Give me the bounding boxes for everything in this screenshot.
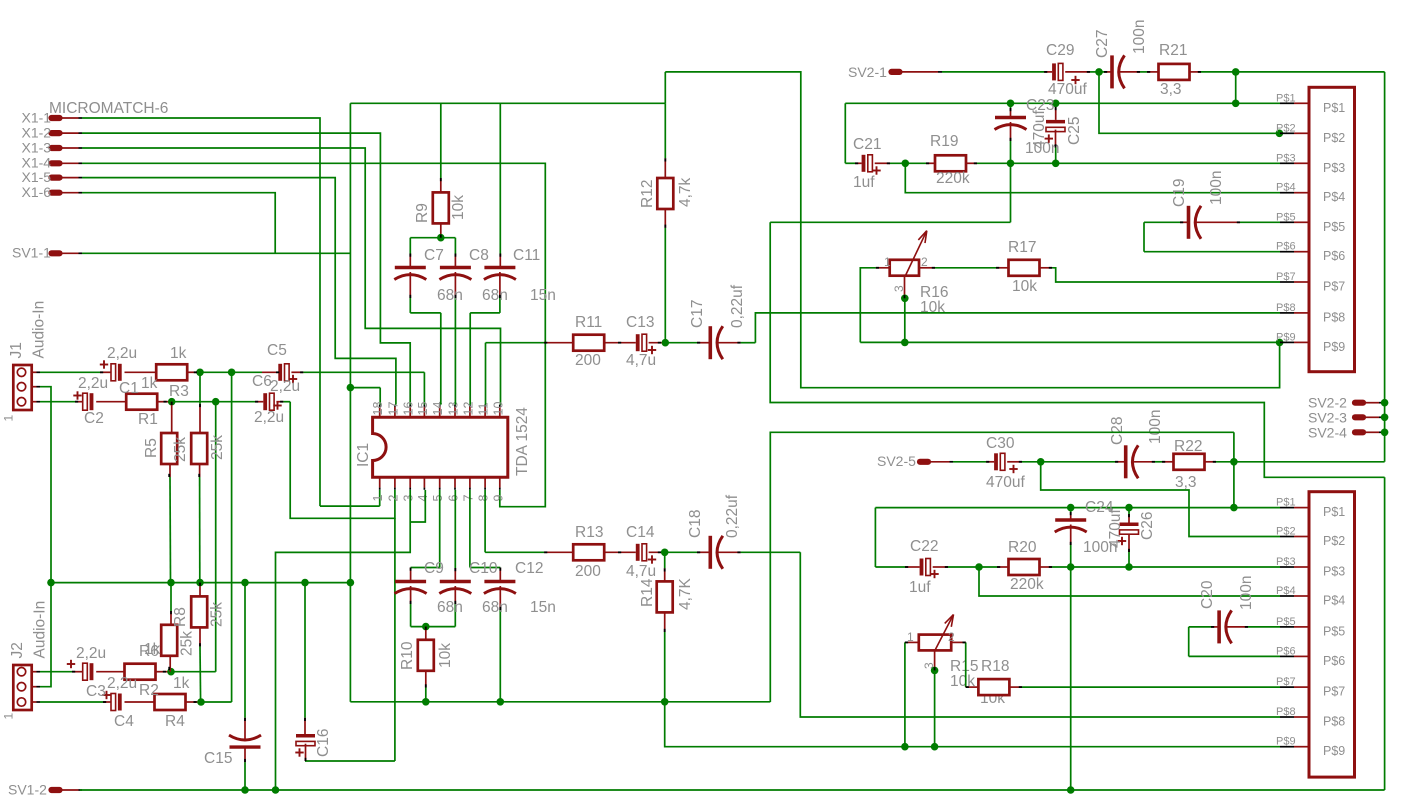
- svg-text:C4: C4: [114, 713, 134, 730]
- svg-text:P$9: P$9: [1323, 744, 1345, 758]
- svg-text:X1-6: X1-6: [22, 184, 52, 200]
- svg-text:P$6: P$6: [1276, 241, 1296, 253]
- svg-text:C2: C2: [84, 410, 104, 427]
- svg-text:470uf: 470uf: [1031, 110, 1048, 149]
- svg-text:C16: C16: [315, 729, 332, 757]
- svg-text:4,7k: 4,7k: [677, 177, 694, 207]
- svg-text:C21: C21: [853, 136, 881, 153]
- svg-text:17: 17: [386, 402, 400, 416]
- svg-text:1: 1: [884, 255, 891, 269]
- svg-text:11: 11: [477, 402, 491, 415]
- svg-text:200: 200: [575, 352, 601, 369]
- svg-text:7: 7: [461, 495, 475, 502]
- svg-text:4: 4: [416, 495, 430, 502]
- svg-text:R18: R18: [981, 658, 1009, 675]
- svg-text:P$7: P$7: [1276, 271, 1296, 283]
- svg-text:R20: R20: [1008, 539, 1037, 556]
- svg-text:470uf: 470uf: [1107, 509, 1124, 548]
- svg-text:MICROMATCH-6: MICROMATCH-6: [49, 100, 168, 117]
- svg-text:SV1-1: SV1-1: [12, 245, 51, 261]
- svg-text:1k: 1k: [141, 375, 158, 392]
- svg-text:R12: R12: [639, 180, 656, 208]
- svg-text:X1-5: X1-5: [22, 169, 52, 185]
- svg-text:P$2: P$2: [1323, 534, 1345, 548]
- svg-text:R2: R2: [139, 682, 159, 699]
- svg-text:C5: C5: [267, 342, 287, 359]
- svg-text:4,7u: 4,7u: [626, 563, 656, 580]
- svg-text:P$5: P$5: [1276, 211, 1296, 223]
- svg-text:1: 1: [2, 415, 16, 422]
- svg-text:R13: R13: [575, 524, 603, 541]
- svg-text:P$2: P$2: [1276, 526, 1296, 538]
- svg-text:15: 15: [416, 402, 430, 416]
- svg-text:16: 16: [402, 402, 416, 416]
- svg-text:X1-3: X1-3: [22, 139, 52, 155]
- svg-text:C26: C26: [1139, 512, 1156, 540]
- svg-text:P$6: P$6: [1323, 249, 1345, 263]
- svg-text:P$5: P$5: [1276, 616, 1296, 628]
- svg-text:C14: C14: [626, 524, 655, 541]
- svg-text:C6: C6: [252, 373, 272, 390]
- svg-text:R3: R3: [169, 383, 189, 400]
- svg-text:C15: C15: [204, 750, 232, 767]
- svg-text:3,3: 3,3: [1175, 474, 1197, 491]
- svg-text:C3: C3: [86, 683, 106, 700]
- svg-text:3: 3: [402, 495, 416, 502]
- svg-text:2: 2: [921, 255, 928, 269]
- svg-text:SV2-5: SV2-5: [877, 453, 916, 469]
- svg-text:100n: 100n: [1147, 410, 1164, 444]
- svg-text:P$3: P$3: [1276, 152, 1296, 164]
- svg-text:P$8: P$8: [1323, 310, 1345, 324]
- svg-text:C1: C1: [119, 380, 139, 397]
- svg-text:1k: 1k: [170, 345, 187, 362]
- svg-text:R19: R19: [930, 133, 958, 150]
- svg-text:C20: C20: [1199, 580, 1216, 609]
- svg-text:P$6: P$6: [1276, 645, 1296, 657]
- svg-text:470uf: 470uf: [986, 474, 1025, 491]
- svg-text:C11: C11: [513, 247, 540, 264]
- svg-text:2,2u: 2,2u: [107, 345, 137, 362]
- svg-text:2: 2: [386, 495, 400, 502]
- svg-text:1uf: 1uf: [909, 579, 931, 596]
- svg-text:C28: C28: [1109, 417, 1126, 445]
- svg-text:1: 1: [2, 713, 16, 720]
- svg-text:R5: R5: [143, 438, 160, 458]
- svg-text:2,2u: 2,2u: [78, 375, 108, 392]
- svg-text:25k: 25k: [209, 435, 226, 460]
- svg-text:SV1-2: SV1-2: [8, 781, 47, 797]
- svg-text:8: 8: [477, 495, 491, 502]
- svg-text:15n: 15n: [530, 287, 556, 304]
- svg-text:R8: R8: [172, 607, 189, 627]
- svg-text:R11: R11: [575, 314, 602, 331]
- svg-text:68n: 68n: [482, 599, 508, 616]
- svg-text:100n: 100n: [1238, 576, 1255, 610]
- svg-text:R17: R17: [1008, 239, 1036, 256]
- svg-text:1uf: 1uf: [853, 174, 875, 191]
- svg-text:10k: 10k: [450, 195, 467, 220]
- svg-text:25k: 25k: [179, 631, 196, 656]
- svg-text:P$9: P$9: [1276, 736, 1296, 748]
- svg-text:18: 18: [371, 402, 385, 416]
- svg-text:P$2: P$2: [1276, 122, 1296, 134]
- svg-text:P$8: P$8: [1323, 715, 1345, 729]
- svg-text:SV2-3: SV2-3: [1308, 409, 1347, 425]
- svg-text:15n: 15n: [530, 599, 556, 616]
- svg-text:C13: C13: [626, 314, 654, 331]
- svg-text:2,2u: 2,2u: [76, 645, 106, 662]
- svg-text:Audio-In: Audio-In: [32, 601, 49, 659]
- svg-text:P$6: P$6: [1323, 654, 1345, 668]
- svg-text:12: 12: [461, 402, 475, 416]
- svg-text:J2: J2: [9, 642, 26, 658]
- svg-text:68n: 68n: [437, 287, 463, 304]
- svg-text:10k: 10k: [920, 299, 945, 316]
- svg-text:P$2: P$2: [1323, 131, 1345, 145]
- svg-text:C8: C8: [469, 247, 489, 264]
- svg-text:220k: 220k: [936, 170, 970, 187]
- svg-text:1k: 1k: [173, 675, 190, 692]
- svg-text:C7: C7: [424, 247, 444, 264]
- svg-text:P$4: P$4: [1323, 190, 1345, 204]
- svg-text:C29: C29: [1046, 42, 1074, 59]
- svg-text:P$3: P$3: [1323, 161, 1345, 175]
- svg-text:3,3: 3,3: [1160, 81, 1182, 98]
- svg-text:P$7: P$7: [1323, 280, 1345, 294]
- svg-text:P$1: P$1: [1276, 92, 1296, 104]
- svg-text:470uf: 470uf: [1048, 81, 1087, 98]
- svg-text:4,7K: 4,7K: [677, 577, 694, 610]
- svg-text:200: 200: [575, 563, 601, 580]
- svg-text:9: 9: [491, 495, 505, 502]
- svg-text:P$8: P$8: [1276, 302, 1296, 314]
- svg-text:C18: C18: [687, 510, 704, 538]
- svg-text:100n: 100n: [1208, 171, 1225, 205]
- svg-text:68n: 68n: [437, 599, 463, 616]
- svg-text:P$9: P$9: [1323, 340, 1345, 354]
- svg-text:13: 13: [447, 402, 461, 416]
- svg-text:TDA 1524: TDA 1524: [514, 407, 531, 476]
- svg-text:P$1: P$1: [1276, 497, 1296, 509]
- svg-text:2,2u: 2,2u: [270, 378, 300, 395]
- svg-text:P$8: P$8: [1276, 706, 1296, 718]
- svg-text:P$5: P$5: [1323, 624, 1345, 638]
- svg-text:6: 6: [447, 495, 461, 502]
- svg-text:C17: C17: [689, 300, 706, 328]
- svg-text:IC1: IC1: [355, 443, 372, 467]
- svg-text:C27: C27: [1094, 30, 1111, 58]
- svg-text:C25: C25: [1066, 117, 1083, 145]
- svg-text:R10: R10: [399, 641, 416, 670]
- svg-text:14: 14: [431, 402, 445, 416]
- svg-text:C19: C19: [1171, 179, 1188, 207]
- svg-text:P$1: P$1: [1323, 101, 1345, 115]
- svg-text:P$9: P$9: [1276, 331, 1296, 343]
- svg-text:R6: R6: [139, 643, 159, 660]
- svg-text:R21: R21: [1159, 42, 1187, 59]
- svg-text:2,2u: 2,2u: [254, 409, 284, 426]
- svg-text:68n: 68n: [482, 287, 508, 304]
- svg-text:0,22uf: 0,22uf: [729, 284, 746, 328]
- svg-text:R4: R4: [165, 713, 185, 730]
- svg-text:10: 10: [491, 402, 505, 416]
- svg-text:0,22uf: 0,22uf: [724, 494, 741, 538]
- svg-text:R14: R14: [639, 578, 656, 607]
- svg-text:X1-2: X1-2: [22, 124, 52, 140]
- svg-text:C30: C30: [986, 435, 1015, 452]
- svg-text:5: 5: [431, 495, 445, 502]
- svg-text:25k: 25k: [209, 602, 226, 627]
- svg-text:Audio-In: Audio-In: [31, 301, 48, 359]
- svg-text:P$3: P$3: [1276, 556, 1296, 568]
- svg-text:SV2-4: SV2-4: [1308, 424, 1347, 440]
- svg-text:P$1: P$1: [1323, 505, 1345, 519]
- svg-text:R22: R22: [1174, 438, 1202, 455]
- svg-text:10k: 10k: [437, 643, 454, 668]
- svg-text:C22: C22: [910, 538, 938, 555]
- svg-text:SV2-1: SV2-1: [848, 64, 887, 80]
- svg-text:P$7: P$7: [1323, 685, 1345, 699]
- svg-text:100n: 100n: [1131, 20, 1148, 54]
- svg-text:X1-1: X1-1: [22, 109, 52, 125]
- svg-text:P$5: P$5: [1323, 220, 1345, 234]
- svg-text:P$3: P$3: [1323, 565, 1345, 579]
- svg-text:2,2u: 2,2u: [107, 675, 137, 692]
- svg-text:C9: C9: [424, 560, 444, 577]
- svg-text:220k: 220k: [1010, 576, 1044, 593]
- svg-text:P$4: P$4: [1276, 182, 1296, 194]
- svg-text:SV2-2: SV2-2: [1308, 395, 1347, 411]
- svg-text:1: 1: [371, 495, 385, 502]
- svg-text:R1: R1: [138, 411, 158, 428]
- svg-text:4,7u: 4,7u: [626, 352, 656, 369]
- svg-text:P$7: P$7: [1276, 676, 1296, 688]
- svg-text:C12: C12: [515, 560, 543, 577]
- svg-text:25k: 25k: [172, 437, 189, 462]
- svg-text:C10: C10: [469, 560, 498, 577]
- svg-text:P$4: P$4: [1276, 585, 1296, 597]
- svg-text:R9: R9: [414, 203, 431, 223]
- svg-text:P$4: P$4: [1323, 594, 1345, 608]
- svg-text:J1: J1: [8, 342, 25, 358]
- svg-text:10k: 10k: [1012, 278, 1037, 295]
